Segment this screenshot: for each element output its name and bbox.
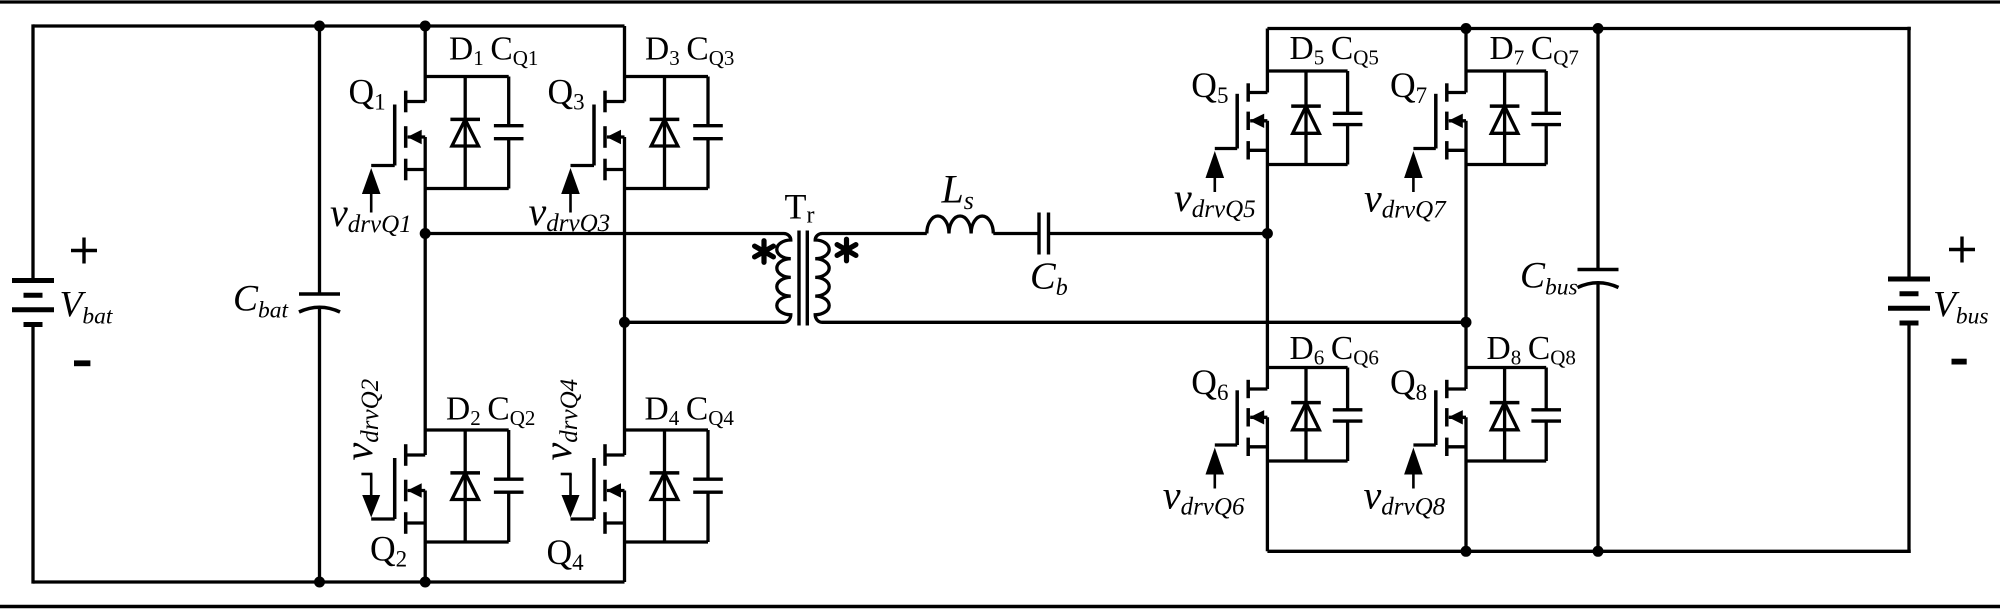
node: leg1 midpoint (primary+) [420, 228, 431, 239]
diode D7 (body diode of Q7) [1490, 71, 1520, 165]
capacitor CQ1 (snubber of Q1) [494, 77, 524, 189]
wire: Cbat branch bottom [318, 308, 321, 583]
wire: secondary bottom to right bridge legB midpoint [824, 321, 1467, 324]
capacitor CQ6 (snubber of Q6) [1333, 368, 1363, 462]
capacitor Cbat [299, 294, 340, 312]
wire: Q5 cell bottom rail [1267, 163, 1347, 166]
wire: left top rail (Vbat+ to bridge) [33, 24, 625, 27]
wire: Q1 cell bottom rail [425, 187, 509, 190]
wire: Q5 cell top rail [1267, 69, 1347, 72]
wire: Vbat negative lead [31, 327, 34, 584]
transistor Q2 [371, 444, 425, 534]
border frame top line [0, 0, 2000, 3]
wire: Cbat branch top [318, 26, 321, 294]
wire: Vbat positive lead [31, 24, 34, 278]
transistor Q3 [571, 91, 625, 181]
node: legB midpoint junction [1461, 317, 1472, 328]
gate drive arrow for Q8 [1404, 448, 1423, 489]
wire: leg Q7/Q8 middle segment [1464, 121, 1467, 389]
wire: leg Q3/Q4 upper segment [623, 26, 626, 102]
gate drive arrow for Q7 [1404, 151, 1423, 192]
node: legA midpoint junction [1262, 228, 1273, 239]
wire: Ls to Cb [993, 232, 1039, 235]
wire: right bottom rail [1267, 550, 1910, 553]
wire: Q4 cell top rail [625, 428, 709, 431]
node: leg1 top junction [420, 21, 431, 32]
wire: leg Q5/Q6 middle segment [1266, 121, 1269, 389]
wire: leg Q1/Q2 middle segment [424, 137, 427, 455]
node: Cbat top junction [314, 21, 325, 32]
capacitor CQ7 (snubber of Q7) [1531, 71, 1561, 165]
wire: leg Q5/Q6 upper segment [1266, 29, 1269, 93]
battery Vbus [1888, 279, 1930, 323]
wire: Q6 cell bottom rail [1267, 459, 1347, 462]
wire: primary top (leg1 mid to transformer) [425, 232, 782, 235]
label: Vbus plus sign [1949, 237, 1975, 263]
wire: Q2 cell bottom rail [425, 540, 509, 543]
secondary dot mark (asterisk) [837, 239, 856, 261]
diode D4 (body diode of Q4) [650, 430, 680, 542]
transistor Q8 [1413, 380, 1466, 456]
gate drive arrow for Q3 [561, 168, 580, 213]
label: Vbat minus sign [74, 360, 90, 366]
diode D6 (body diode of Q6) [1291, 368, 1321, 462]
transistor Q1 [371, 91, 425, 181]
inductor Ls [927, 216, 994, 234]
border frame bottom line [0, 605, 2000, 609]
gate drive arrow for Q4 [561, 474, 580, 518]
gate drive arrow for Q1 [362, 168, 381, 213]
primary dot mark (asterisk) [755, 241, 774, 263]
gate drive arrow for Q5 [1206, 151, 1225, 192]
label: Vbus minus sign [1952, 359, 1967, 365]
capacitor CQ8 (snubber of Q8) [1531, 368, 1561, 462]
wire: Q8 cell bottom rail [1466, 459, 1546, 462]
transistor Q4 [571, 444, 625, 534]
diode D1 (body diode of Q1) [450, 77, 480, 189]
diode D5 (body diode of Q5) [1291, 71, 1321, 165]
wire: Q7 cell top rail [1466, 69, 1546, 72]
wire: Cb to right bridge legA midpoint [1049, 232, 1268, 235]
node: leg2 midpoint (primary-) [619, 317, 630, 328]
wire: Q3 cell top rail [625, 75, 709, 78]
wire: primary bottom (leg2 mid to transformer) [625, 321, 783, 324]
wire: right top rail [1267, 27, 1910, 30]
node: Cbus top junction [1593, 23, 1604, 34]
wire: leg Q1/Q2 upper segment [424, 26, 427, 102]
transformer Tr core [799, 231, 807, 326]
diode D2 (body diode of Q2) [450, 430, 480, 542]
wire: leg Q7/Q8 upper segment [1464, 29, 1467, 93]
wire: leg Q1/Q2 lower segment [424, 491, 427, 583]
capacitor CQ4 (snubber of Q4) [693, 430, 723, 542]
wire: Vbus positive lead [1907, 27, 1910, 277]
node: Cbat bottom junction [314, 577, 325, 588]
diode D3 (body diode of Q3) [650, 77, 680, 189]
wire: Q3 cell bottom rail [625, 187, 709, 190]
wire: Q4 cell bottom rail [625, 540, 709, 543]
capacitor CQ3 (snubber of Q3) [693, 77, 723, 189]
transformer Tr secondary winding [815, 234, 829, 323]
node: legB top junction [1461, 23, 1472, 34]
wire: Vbus negative lead [1907, 326, 1910, 553]
capacitor Cb [1039, 213, 1049, 255]
gate drive arrow for Q6 [1206, 448, 1225, 489]
node: Cbus bottom junction [1593, 546, 1604, 557]
wire: Q6 cell top rail [1267, 366, 1347, 369]
wire: Q7 cell bottom rail [1466, 163, 1546, 166]
node: legB bottom junction [1461, 546, 1472, 557]
wire: Q8 cell top rail [1466, 366, 1546, 369]
transistor Q5 [1215, 83, 1268, 159]
capacitor Cbus [1578, 270, 1619, 288]
wire: leg Q5/Q6 lower segment [1266, 417, 1269, 551]
diode D8 (body diode of Q8) [1490, 368, 1520, 462]
label: Vbat plus sign [71, 238, 97, 264]
wire: leg Q3/Q4 middle segment [623, 137, 626, 455]
transformer Tr primary winding [777, 234, 791, 323]
gate drive arrow for Q2 [361, 474, 380, 518]
wire: leg Q3/Q4 lower segment [623, 491, 626, 583]
node: leg1 bottom junction [420, 577, 431, 588]
wire: leg Q7/Q8 lower segment [1464, 417, 1467, 551]
wire: left bottom rail (Vbat- to bridge) [33, 580, 625, 583]
transistor Q7 [1413, 83, 1466, 159]
capacitor CQ2 (snubber of Q2) [494, 430, 524, 542]
wire: secondary top to Ls [824, 232, 927, 235]
transistor Q6 [1215, 380, 1268, 456]
wire: Q1 cell top rail [425, 75, 509, 78]
wire: Cbus branch bottom [1596, 283, 1599, 551]
wire: Cbus branch top [1596, 29, 1599, 270]
wire: Q2 cell top rail [425, 428, 509, 431]
battery Vbat [12, 281, 54, 325]
capacitor CQ5 (snubber of Q5) [1333, 71, 1363, 165]
